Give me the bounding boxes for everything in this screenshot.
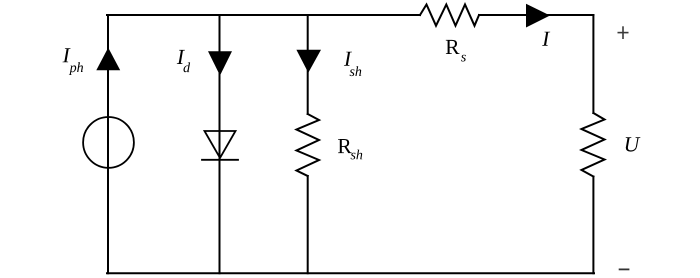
arrow current I <box>526 4 550 28</box>
label I_ph <box>63 48 71 62</box>
wire diode branch vertical <box>219 15 221 273</box>
wire right branch top segment <box>592 15 594 113</box>
diode D1 cathode bar <box>202 159 238 161</box>
wire left branch vertical <box>107 15 109 273</box>
label I_d <box>177 50 185 64</box>
wire top bus (left node to resistor Rs) <box>107 14 420 16</box>
terminal plus sign <box>618 26 629 39</box>
resistor load U <box>582 113 605 177</box>
wire shunt branch bottom segment <box>307 176 309 273</box>
arrow current I_d <box>208 51 232 75</box>
resistor R_sh <box>297 114 320 176</box>
arrow current I_ph <box>96 48 120 71</box>
label R_s <box>446 40 460 54</box>
diode D1 triangle <box>205 131 236 158</box>
resistor R_s <box>420 5 479 26</box>
wire top right segment <box>479 14 593 16</box>
arrow current I_sh <box>296 50 321 73</box>
wire bottom bus <box>107 272 594 274</box>
wire shunt branch top segment <box>307 15 309 114</box>
terminal minus sign <box>619 268 630 270</box>
label I <box>542 32 550 46</box>
label U <box>626 137 641 151</box>
wire right branch bottom segment <box>592 177 594 274</box>
current source U1 circle <box>83 117 134 168</box>
label R_sh <box>338 139 352 153</box>
label I_sh <box>344 52 352 66</box>
